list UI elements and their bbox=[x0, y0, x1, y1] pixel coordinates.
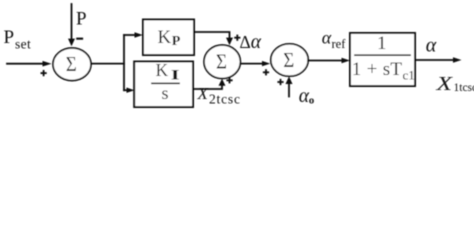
svg-text:o: o bbox=[309, 95, 315, 107]
svg-text:α: α bbox=[426, 34, 437, 56]
svg-text:2tcsc: 2tcsc bbox=[209, 92, 241, 107]
svg-text:s: s bbox=[162, 83, 169, 103]
svg-text:1tcsc: 1tcsc bbox=[454, 82, 474, 94]
summing junction S2 bbox=[204, 45, 240, 79]
arrowhead KI into S2 bbox=[219, 79, 226, 86]
wire KI output bbox=[193, 85, 222, 90]
plus sign at S3 left input bbox=[263, 69, 269, 75]
summing junction S3 bbox=[271, 44, 308, 76]
wire branch vertical bbox=[123, 35, 125, 90]
plus sign at S2 bottom input bbox=[226, 77, 232, 83]
svg-text:c1: c1 bbox=[403, 68, 415, 83]
arrowhead KP into S2 bbox=[226, 38, 233, 46]
block KP bbox=[143, 20, 194, 56]
node alpha-ref label bbox=[322, 27, 346, 51]
svg-text:α: α bbox=[322, 27, 332, 47]
wire KP output bbox=[194, 32, 230, 39]
svg-text:Σ: Σ bbox=[283, 48, 294, 72]
svg-text:P: P bbox=[76, 8, 87, 29]
wire Pset input bbox=[7, 63, 44, 65]
wire alpha-o bottom input bbox=[288, 84, 290, 97]
wire branch to KI block bbox=[124, 89, 128, 91]
plus sign at S1 left input bbox=[41, 70, 47, 76]
node alpha-o label bbox=[299, 86, 315, 107]
arrowhead P into S1 bbox=[68, 39, 75, 47]
arrowhead into KP bbox=[135, 32, 143, 37]
plus sign at S3 bottom input bbox=[277, 79, 283, 85]
plus sign at S2 top input bbox=[234, 35, 240, 41]
svg-text:ref: ref bbox=[332, 37, 347, 51]
svg-text:Σ: Σ bbox=[216, 50, 227, 74]
svg-text:K: K bbox=[158, 27, 172, 48]
node X1tcsc label bbox=[435, 73, 474, 95]
minus sign at S1 top input bbox=[76, 38, 83, 40]
wire TF output bbox=[415, 59, 454, 61]
svg-text:P: P bbox=[172, 34, 181, 49]
svg-text:Σ: Σ bbox=[66, 52, 77, 76]
arrowhead into TF block bbox=[342, 58, 351, 63]
arrowhead into summing junction S1 bbox=[43, 61, 52, 67]
wire P top input bbox=[71, 4, 73, 40]
wire S3 output bbox=[308, 60, 343, 62]
block KI over s bbox=[134, 60, 193, 107]
wire S1 output to branch node bbox=[91, 63, 124, 65]
svg-text:P: P bbox=[4, 27, 15, 48]
summing junction S1 bbox=[53, 48, 91, 81]
arrowhead TF output bbox=[453, 57, 462, 62]
svg-text:X: X bbox=[435, 73, 453, 95]
svg-text:Δα: Δα bbox=[240, 32, 262, 53]
arrowhead into KI bbox=[127, 88, 135, 93]
arrowhead alpha-o into S3 bbox=[286, 76, 293, 84]
svg-text:1 + sT: 1 + sT bbox=[352, 59, 403, 80]
svg-text:X: X bbox=[197, 84, 209, 103]
wire S2 output bbox=[241, 63, 264, 65]
arrowhead into S3 bbox=[262, 61, 270, 66]
node X2tcsc label bbox=[197, 84, 241, 107]
svg-text:I: I bbox=[171, 67, 180, 83]
svg-text:K: K bbox=[156, 60, 169, 80]
node Pset label bbox=[4, 27, 32, 51]
wire branch to KP block bbox=[124, 34, 136, 36]
svg-text:1: 1 bbox=[377, 33, 387, 54]
svg-text:set: set bbox=[15, 37, 31, 52]
block transfer function 1/(1+sTc1) bbox=[350, 33, 415, 86]
